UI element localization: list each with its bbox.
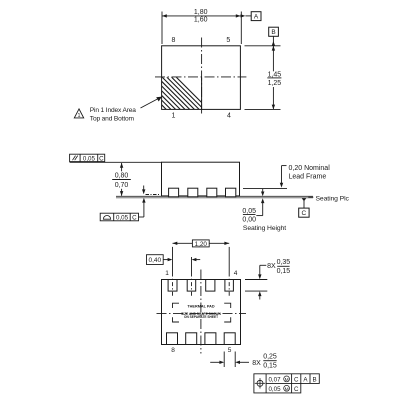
svg-text:Seating Plc: Seating Plc	[316, 196, 350, 203]
pad 1 centerline	[172, 247, 174, 297]
bottom view vertical centerline	[200, 270, 202, 354]
pad width dimension arrows	[210, 361, 249, 364]
svg-text:5: 5	[226, 37, 230, 44]
dimension 1,45/1,25 arrowheads	[272, 41, 275, 109]
seating plane line	[116, 196, 313, 197]
svg-text:5: 5	[228, 347, 232, 354]
pin 1 index area note text	[90, 107, 136, 123]
seating height text 0,05/0,00	[242, 208, 286, 232]
svg-text:0,25: 0,25	[263, 354, 277, 361]
seating plane label	[308, 196, 349, 203]
svg-text:0,70: 0,70	[115, 182, 129, 189]
bottom view horizontal centerline	[157, 312, 247, 314]
side view lead 3	[207, 188, 217, 197]
parallelism feature control frame	[70, 154, 105, 162]
svg-text:A: A	[303, 377, 308, 384]
dimension 1,45/1,25 extension lines	[245, 46, 281, 110]
svg-text:0,05: 0,05	[116, 214, 129, 221]
svg-text:0,05: 0,05	[242, 208, 256, 215]
svg-text:1: 1	[78, 113, 81, 119]
lead frame note text	[289, 165, 331, 180]
svg-text:C: C	[294, 377, 299, 384]
svg-text:0,80: 0,80	[115, 173, 129, 180]
dimension 0,80/0,70	[121, 163, 123, 196]
svg-text:B: B	[313, 377, 317, 384]
pin 1 note leader	[141, 97, 162, 108]
dimension 0,40 boxed text	[147, 255, 164, 265]
pin label 1 bottom view	[165, 270, 169, 277]
bottom view pad pin7	[186, 333, 197, 345]
datum A symbol	[251, 12, 261, 21]
dimension 0,40 arrows	[163, 258, 200, 261]
side view lead 1	[169, 188, 179, 197]
svg-text:Pin 1 Index Area: Pin 1 Index Area	[90, 107, 136, 114]
svg-text:Lead Frame: Lead Frame	[289, 173, 327, 180]
pin label 5 top view	[226, 37, 230, 44]
pin label 4 bottom view	[234, 270, 238, 277]
dimension text 0,80/0,70	[112, 173, 131, 189]
pin label 4 top view	[227, 113, 231, 120]
profile FCF leader	[139, 198, 146, 217]
bottom view pad pin4	[225, 280, 234, 292]
svg-text:8: 8	[172, 37, 176, 44]
bottom view pad pin1	[168, 280, 177, 292]
profile feature control frame	[100, 213, 138, 221]
position tolerance feature control frame	[254, 374, 319, 393]
position symbol	[255, 378, 265, 388]
side view lead 2	[188, 188, 198, 197]
svg-text:Seating Height: Seating Height	[243, 225, 286, 232]
svg-text:C: C	[294, 386, 299, 393]
bottom view package body	[162, 280, 241, 345]
bottom view pad pin3	[206, 280, 215, 292]
svg-text:C: C	[132, 214, 137, 221]
svg-text:0,05: 0,05	[83, 155, 96, 162]
side view lead 4	[226, 188, 236, 197]
dimension 0,80/0,70 arrowheads	[120, 163, 123, 196]
pad length text 8X 0,35/0,15	[267, 259, 290, 275]
svg-text:1: 1	[165, 270, 169, 277]
note flag triangle 1	[74, 109, 83, 119]
svg-text:0,20 Nominal: 0,20 Nominal	[289, 165, 331, 172]
bottom view pad pin2	[187, 280, 196, 292]
svg-text:0,35: 0,35	[277, 259, 291, 266]
top view vertical centerline	[201, 38, 203, 116]
dimension 1,45/1,25 line	[272, 46, 274, 110]
datum C symbol	[299, 198, 309, 217]
dimension 1,20 line	[173, 242, 230, 244]
hatched area border	[201, 77, 203, 109]
svg-text:0,40: 0,40	[148, 257, 161, 264]
thermal pad text	[181, 304, 221, 319]
svg-text:4: 4	[234, 270, 238, 277]
side view body top extension line	[70, 161, 162, 163]
svg-text:1,25: 1,25	[268, 80, 282, 87]
dimension 1,80/1,60 extension lines	[162, 12, 241, 45]
bottom view pad pin5	[224, 333, 235, 345]
body bottom plane dash-dot line	[146, 194, 161, 196]
svg-text:THERMAL PAD: THERMAL PAD	[187, 304, 215, 308]
pad 4 centerline	[228, 247, 230, 297]
svg-text:C: C	[302, 210, 307, 217]
svg-text:Top and Bottom: Top and Bottom	[90, 115, 135, 122]
datum B symbol	[269, 27, 279, 45]
svg-text:1: 1	[172, 113, 176, 120]
pin label 8 top view	[172, 37, 176, 44]
small arrow to body bottom plane	[142, 186, 145, 195]
pad length dimension extension lines	[245, 280, 267, 292]
dimension text 1,45/1,25	[267, 71, 281, 87]
dimension text 1,80/1,60	[194, 9, 208, 24]
pad width dimension extension lines	[224, 352, 235, 368]
svg-text:8X: 8X	[252, 360, 261, 367]
svg-text:ON SEPARATE SHEET: ON SEPARATE SHEET	[184, 315, 218, 319]
svg-text:B: B	[271, 29, 275, 36]
svg-text:4: 4	[227, 113, 231, 120]
lead frame note leader	[280, 166, 287, 188]
svg-text:1,80: 1,80	[194, 9, 208, 16]
svg-text:0,05: 0,05	[268, 386, 281, 393]
svg-text:C: C	[99, 155, 104, 162]
seating height dimension arrows	[256, 189, 264, 216]
svg-text:0,00: 0,00	[242, 217, 256, 224]
svg-text:0,07: 0,07	[268, 377, 281, 384]
svg-text:1,20: 1,20	[195, 241, 208, 248]
svg-text:M: M	[285, 377, 289, 383]
pad width text 8X 0,25/0,15	[252, 354, 277, 370]
bottom view pad pin8	[167, 333, 178, 345]
dimension 1,80/1,60 line	[162, 15, 251, 17]
pad 2 centerline	[191, 257, 193, 297]
svg-text:0,15: 0,15	[277, 268, 291, 275]
pin label 8 bottom view	[171, 347, 175, 354]
top view horizontal centerline	[155, 76, 246, 78]
svg-text:8X: 8X	[267, 263, 276, 270]
lead top extension line	[243, 187, 287, 189]
svg-text:A: A	[254, 13, 259, 20]
thermal pad corner brackets	[173, 303, 231, 322]
svg-text:1,60: 1,60	[194, 17, 208, 24]
svg-text:0,15: 0,15	[263, 363, 277, 370]
FCF row 2 text	[268, 385, 298, 393]
pin label 5 bottom view	[228, 347, 232, 354]
top view package body	[162, 46, 241, 110]
side view package body	[162, 162, 240, 196]
dimension 1,80/1,60 arrowheads	[162, 14, 245, 17]
pin 1 index hatched area	[108, 70, 224, 125]
dimension 1,20 boxed text	[192, 240, 209, 248]
svg-text:1,45: 1,45	[268, 71, 282, 78]
svg-text:8: 8	[171, 347, 175, 354]
bottom view pad pin6	[205, 333, 216, 345]
pad length dimension arrows	[258, 265, 266, 299]
pin label 1 top view	[172, 113, 176, 120]
svg-text:M: M	[285, 386, 289, 392]
dimension 1,20 arrowheads	[173, 242, 230, 245]
FCF row 1 text	[268, 376, 316, 384]
